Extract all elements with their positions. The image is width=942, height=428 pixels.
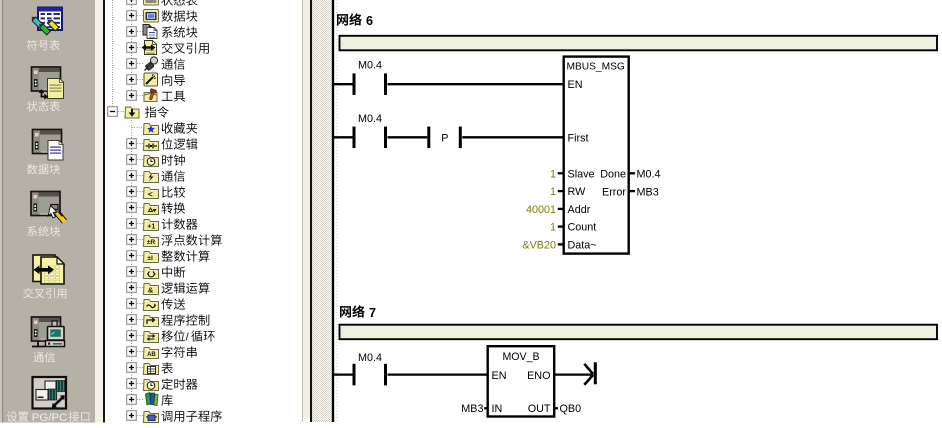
svg-text:PG/PC: PG/PC (32, 412, 67, 424)
svg-text:&: & (148, 285, 154, 294)
svg-text:Addr: Addr (568, 204, 591, 216)
svg-text:±I: ±I (147, 255, 153, 262)
svg-text:&VB20: &VB20 (522, 239, 556, 251)
svg-text:First: First (568, 132, 589, 144)
svg-text:M0.4: M0.4 (358, 113, 382, 125)
svg-text:1: 1 (550, 168, 556, 180)
svg-text:Error: Error (602, 186, 626, 198)
svg-text:MB3: MB3 (637, 186, 659, 198)
svg-text:+1: +1 (147, 223, 155, 230)
svg-text:EN: EN (492, 370, 507, 382)
svg-text:<: < (148, 189, 153, 199)
svg-text:OUT: OUT (528, 403, 551, 415)
svg-text:ENO: ENO (527, 370, 550, 382)
svg-text:±R: ±R (147, 239, 156, 246)
svg-text:7: 7 (369, 306, 376, 320)
svg-text:M0.4: M0.4 (358, 60, 382, 72)
svg-text:RW: RW (568, 186, 587, 198)
svg-text:Slave: Slave (568, 168, 595, 180)
svg-text:M0.4: M0.4 (358, 352, 382, 364)
svg-text:1: 1 (550, 222, 556, 234)
svg-text:IN: IN (492, 403, 503, 415)
svg-text:M0.4: M0.4 (637, 169, 661, 181)
svg-text:Data~: Data~ (568, 239, 597, 251)
svg-text:Count: Count (568, 222, 597, 234)
svg-text:Done: Done (600, 169, 626, 181)
svg-text:40001: 40001 (526, 204, 556, 216)
svg-text:QB0: QB0 (560, 403, 582, 415)
svg-text:1: 1 (550, 186, 556, 198)
svg-text:P: P (441, 132, 448, 144)
svg-text:AB: AB (147, 352, 156, 358)
svg-text:MBUS_MSG: MBUS_MSG (567, 62, 625, 73)
svg-text:MB3: MB3 (461, 403, 483, 415)
svg-text:6: 6 (366, 14, 373, 28)
svg-text:EN: EN (568, 79, 583, 91)
svg-text:MOV_B: MOV_B (502, 351, 539, 363)
